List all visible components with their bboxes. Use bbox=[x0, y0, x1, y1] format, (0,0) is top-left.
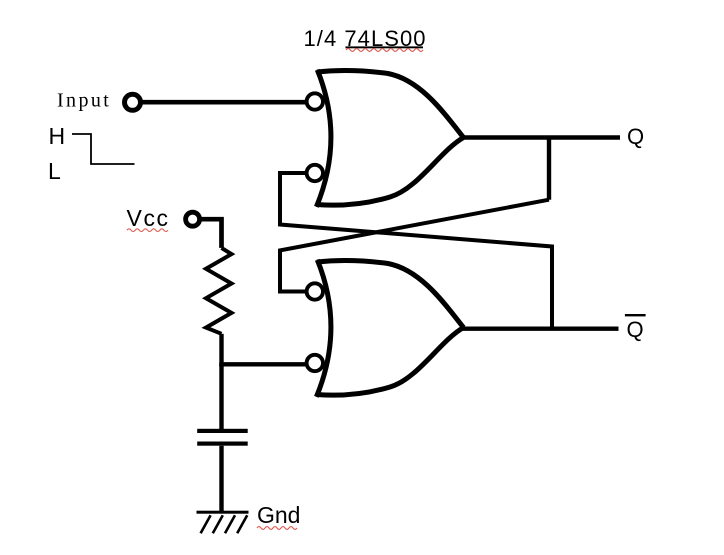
wire Vcc to resistor top bbox=[200, 219, 222, 248]
svg-text:Input: Input bbox=[57, 90, 111, 112]
svg-text:Gnd: Gnd bbox=[257, 502, 300, 528]
wire capacitor bottom to ground bbox=[219, 446, 223, 512]
wire U1 input B stub to Qbar feedback diagonal bbox=[280, 173, 552, 329]
wire Q feedback vertical bbox=[547, 138, 551, 200]
wire resistor bottom to node A bbox=[219, 334, 223, 367]
wire node A to gate U2 input B bbox=[219, 362, 305, 366]
U2 input bubble pin1 bbox=[307, 283, 323, 299]
U1 input bubble pin1 bbox=[307, 93, 323, 109]
svg-text:Vcc: Vcc bbox=[127, 205, 170, 231]
wire U2 output to Qbar bbox=[461, 327, 619, 331]
wire Q feedback diagonal to U2 input stub bbox=[280, 200, 549, 292]
waveform step H-to-L bbox=[72, 134, 135, 164]
svg-text:L: L bbox=[48, 158, 61, 184]
U1 input bubble pin2 bbox=[307, 165, 323, 181]
red squiggly under Vcc bbox=[127, 229, 168, 232]
underline under 74LS00 bbox=[346, 46, 424, 48]
red squiggly under 74LS00 bbox=[346, 49, 423, 52]
wire U1 output to Q bbox=[461, 135, 620, 139]
Vcc terminal circle bbox=[186, 212, 200, 226]
svg-text:Q: Q bbox=[627, 124, 644, 149]
svg-text:H: H bbox=[49, 123, 66, 149]
wire Input terminal to gate U1 input A bbox=[141, 100, 305, 105]
overline of Qbar bbox=[625, 314, 646, 316]
resistor R1 bbox=[206, 248, 232, 334]
ground symbol bbox=[197, 511, 249, 534]
wire node A to capacitor top bbox=[219, 364, 223, 429]
nand gate U1 (upper, OR shape with input bubbles) bbox=[307, 70, 464, 207]
capacitor C1 plate bottom bbox=[197, 442, 248, 446]
nand gate U2 (lower, OR shape with input bubbles) bbox=[307, 260, 464, 397]
red squiggly under Gnd bbox=[257, 527, 297, 530]
input terminal circle bbox=[125, 94, 141, 110]
svg-text:Q: Q bbox=[627, 317, 644, 342]
capacitor C1 plate top bbox=[197, 429, 248, 433]
U2 input bubble pin2 bbox=[307, 355, 323, 371]
